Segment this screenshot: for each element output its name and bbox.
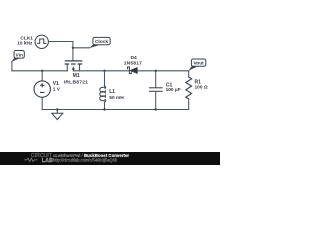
footer bar: [0, 152, 220, 165]
svg-text:LAB: LAB: [42, 158, 53, 164]
voltage source V1: [34, 81, 50, 97]
svg-text:V1: V1: [53, 81, 59, 87]
svg-text:50 mH: 50 mH: [109, 95, 124, 101]
svg-text:L1: L1: [109, 89, 115, 95]
wire right rail M1 source to D4 cathode: [73, 70, 129, 72]
svg-text:D4: D4: [130, 55, 137, 61]
wire junction to Clock flag: [73, 47, 90, 49]
wire left rail Vin to M1 drain: [12, 70, 67, 72]
svg-text:1 V: 1 V: [53, 86, 61, 92]
wire R1 bottom lead: [188, 99, 190, 110]
transistor M1 NMOS: [65, 61, 83, 71]
node L1 top junction: [103, 70, 105, 72]
svg-text:Clock: Clock: [95, 39, 108, 45]
svg-text:10 kHz: 10 kHz: [17, 40, 33, 46]
svg-text:M1: M1: [73, 73, 80, 79]
label V1 1 V: [53, 81, 61, 93]
wire V1 bottom lead: [41, 97, 43, 109]
net flag Clock: [89, 37, 110, 48]
wire C1 top lead: [155, 71, 157, 88]
label M1 IRLB8721: [64, 73, 89, 85]
wire D4 anode to R1 top: [138, 70, 189, 72]
resistor R1: [186, 77, 192, 99]
wire L1 top lead: [104, 71, 106, 87]
net flag Vin: [11, 51, 24, 63]
node Vin/V1 junction: [41, 70, 43, 72]
CircuitLab logo: [24, 153, 53, 164]
svg-text:R1: R1: [195, 79, 202, 85]
clock source CLK1: [35, 35, 48, 48]
svg-text:Vin: Vin: [16, 52, 23, 58]
node C1 bottom junction: [155, 108, 157, 110]
ground: [52, 110, 63, 120]
wire C1 bottom lead: [155, 91, 157, 109]
svg-text:100 µF: 100 µF: [166, 87, 181, 93]
svg-text:IRLB8721: IRLB8721: [64, 79, 89, 85]
label L1 50 mH: [109, 89, 124, 101]
label R1 100 Ohm: [195, 79, 208, 90]
net flag Vout: [189, 59, 206, 71]
capacitor C1: [150, 88, 163, 92]
wire L1 bottom lead: [104, 102, 106, 110]
label CLK1 10 kHz: [17, 35, 33, 46]
svg-text:100 Ω: 100 Ω: [195, 84, 208, 90]
node C1 top junction: [155, 70, 157, 72]
label D4 1N5817: [124, 55, 142, 66]
svg-text:http://circuitlab.com/c/549b3j: http://circuitlab.com/c/549b3j5aQ6k: [53, 157, 118, 162]
diode D4 schottky: [128, 67, 138, 74]
node L1 bottom junction: [103, 108, 105, 110]
wire V1 top lead: [41, 71, 43, 81]
wire clock output to gate corner: [48, 41, 73, 43]
svg-text:Vout: Vout: [193, 61, 204, 67]
wire bottom rail: [42, 109, 189, 111]
label C1 100 uF: [166, 83, 181, 94]
svg-text:1N5817: 1N5817: [124, 60, 142, 66]
node clock junction: [72, 47, 74, 49]
wire R1 top lead: [188, 71, 190, 77]
wire Vin drop: [11, 61, 13, 70]
node ground junction: [56, 108, 58, 110]
inductor L1: [100, 86, 106, 102]
footer text: [53, 153, 129, 163]
wire gate drop: [72, 42, 74, 61]
